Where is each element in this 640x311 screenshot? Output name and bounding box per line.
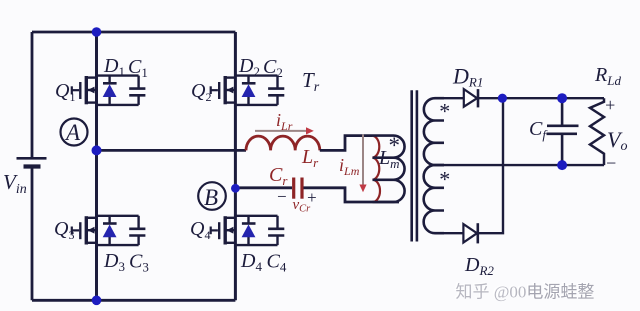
diode DR1 (464, 89, 477, 107)
diode D4 (242, 222, 256, 225)
transformer secondary top winding (424, 98, 444, 165)
node B circle (198, 182, 226, 210)
wire left rail upper (31, 32, 34, 157)
capacitor C2 (268, 89, 284, 96)
svg-text:−: − (605, 153, 617, 173)
capacitor C1 (129, 89, 145, 96)
node dot top of leg1 (92, 27, 102, 37)
wire DR2 to top rail (478, 98, 503, 233)
MOSFET Q4 (210, 216, 235, 244)
inductor Lm (red coil) (373, 136, 381, 202)
svg-text:A: A (64, 120, 81, 145)
diode D2 (242, 82, 256, 85)
wire top rail (32, 31, 235, 34)
capacitor Cr (294, 178, 302, 199)
inductor Lr (246, 136, 320, 150)
svg-text:−: − (276, 187, 287, 206)
transformer secondary bottom winding (424, 165, 444, 233)
node dot Cf bottom (557, 160, 567, 170)
svg-text:*: * (439, 167, 450, 192)
MOSFET Q3 (72, 216, 97, 244)
node dot Cf top (557, 93, 567, 103)
wire left rail lower (31, 168, 34, 301)
capacitor Cf (547, 98, 579, 165)
MOSFET Q2 (210, 76, 235, 104)
wire node B to Cr (235, 186, 292, 189)
wire D2C2 bracket (235, 76, 277, 105)
wire D1C1 bracket (97, 76, 139, 105)
resistor RLd (590, 98, 604, 165)
svg-text:+: + (604, 95, 616, 115)
svg-text:*: * (439, 99, 450, 124)
node dot DR1 cathode (498, 94, 507, 103)
wire Cr to primary bottom (304, 188, 400, 202)
MOSFET Q1 (72, 76, 97, 104)
wire leg 2 (Q2/Q4) (234, 32, 237, 300)
wire secondary top to DR1 (444, 97, 464, 99)
transformer core (412, 90, 417, 241)
wire D3C3 bracket (97, 216, 139, 245)
node dot A (92, 145, 102, 155)
svg-text:*: * (389, 133, 401, 158)
wire secondary bottom to DR2 (444, 232, 463, 234)
wire bottom rail (32, 299, 235, 302)
wire D4C4 bracket (235, 216, 277, 245)
svg-text:B: B (204, 185, 218, 210)
svg-text:知乎 @00电源蛙整: 知乎 @00电源蛙整 (456, 283, 595, 302)
diode D1 (103, 82, 117, 85)
node dot bottom of leg1 (92, 296, 102, 306)
current arrow iLr (255, 130, 306, 132)
wire Lr to primary top (320, 136, 373, 151)
wire center tap / bottom output rail (444, 164, 604, 166)
wire leg 1 (Q1/Q3) (95, 32, 98, 300)
battery Vin (17, 158, 47, 166)
current arrow iLm (362, 135, 364, 185)
transformer primary winding (373, 136, 405, 202)
wire DR1 to output top rail (478, 97, 604, 99)
capacitor C4 (268, 229, 284, 236)
wire node A to Lr (97, 149, 247, 152)
node dot B (231, 184, 240, 193)
diode DR2 (463, 224, 477, 242)
diode D3 (103, 222, 117, 225)
node A circle (61, 119, 88, 146)
capacitor C3 (129, 229, 145, 236)
